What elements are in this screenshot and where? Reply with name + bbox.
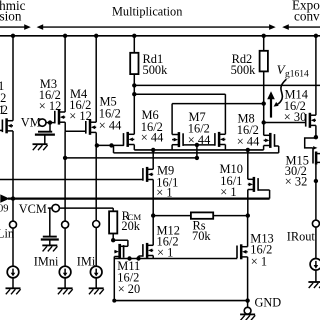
node Vg1614 line from Rd1 xyxy=(134,84,320,86)
ground ILin xyxy=(6,287,21,289)
junction Rd1-M7 line xyxy=(132,92,136,96)
junction VM node xyxy=(48,120,52,124)
junction VDD-M1 xyxy=(11,34,15,38)
resistor Rs xyxy=(191,212,213,218)
node IMi terminal xyxy=(93,221,100,228)
wire Rd1 bottom lead xyxy=(133,74,135,96)
wire M10 gate hook to input line xyxy=(258,189,270,191)
wire Rd1 top lead xyxy=(133,36,135,53)
resistor Rd2 xyxy=(260,51,268,72)
capacitor at VM node xyxy=(49,123,51,132)
svg-text:conversion: conversion xyxy=(0,9,22,24)
wire M9 gate line to left edge xyxy=(0,179,143,181)
transistor M3 xyxy=(58,110,61,125)
wire VDD to M14 drain xyxy=(315,36,317,115)
svg-text:× 32: × 32 xyxy=(285,174,307,188)
node ILin terminal xyxy=(10,221,17,228)
svg-text:500k: 500k xyxy=(143,63,169,77)
wire M3 source to M4 gate xyxy=(64,122,66,131)
current source ILin xyxy=(7,266,19,278)
transistor M8 xyxy=(269,133,272,148)
wire M13 source to ground rail xyxy=(247,257,249,301)
wire Rd2 node down to M8 drain xyxy=(263,104,265,136)
wire M11 source to ground rail xyxy=(113,257,115,301)
ground VCM capacitor xyxy=(42,244,57,246)
wire Rs left lead xyxy=(153,215,191,217)
svg-text:09: 09 xyxy=(0,204,9,215)
current source IMi xyxy=(90,266,102,278)
ground GND symbol xyxy=(240,313,255,315)
junction VDD-M3 xyxy=(63,34,67,38)
current source IMni xyxy=(59,266,71,278)
transistor M5 xyxy=(126,132,129,147)
svg-text:× 1: × 1 xyxy=(156,186,172,200)
wire Rd2 top lead xyxy=(263,36,265,51)
junction M11 gate on line xyxy=(127,256,131,260)
wire M14 source down xyxy=(315,125,317,137)
capacitor at VCM node xyxy=(49,208,51,237)
transistor M7 xyxy=(218,132,221,147)
node VCM terminal xyxy=(48,207,52,209)
resistor Rd1 xyxy=(130,53,138,74)
svg-text:IMni: IMni xyxy=(34,254,59,268)
wire Rs right lead xyxy=(213,215,248,217)
wire M4 source column down to IMi xyxy=(95,132,97,220)
transistor M11 xyxy=(118,244,121,259)
transistor M13 xyxy=(240,244,243,259)
svg-text:× 44: × 44 xyxy=(141,130,163,144)
wire M7 gate to common gate node xyxy=(197,144,215,146)
svg-text:× 12: × 12 xyxy=(69,109,91,123)
transistor M1 (clipped at left edge) xyxy=(5,118,8,133)
wire IMni source to ground xyxy=(64,278,66,289)
svg-text:× 1: × 1 xyxy=(220,185,236,199)
svg-text:× 44: × 44 xyxy=(237,134,259,148)
junction RCM - M11 drain xyxy=(111,238,115,242)
transistor M10 xyxy=(253,177,256,192)
wire M6 source to rail xyxy=(171,145,173,150)
node IMni terminal xyxy=(62,221,69,228)
wire IMi to current source xyxy=(95,228,97,267)
junction Rs left xyxy=(151,213,155,217)
junction Rs right xyxy=(246,213,250,217)
junction M4 source - M5 gate xyxy=(95,143,99,147)
transistor M6 xyxy=(178,132,181,147)
junction VDD-Rd1 xyxy=(132,34,136,38)
input signal arrow at left edge xyxy=(0,194,9,202)
wire VDD to M1 drain xyxy=(12,36,14,121)
wire M15 gate jog xyxy=(305,138,316,148)
junction bias line on M3-source column xyxy=(63,156,67,160)
wire Rd2 bottom lead xyxy=(263,71,265,104)
svg-text:500k: 500k xyxy=(231,63,257,77)
wire M14 gate line xyxy=(264,122,306,124)
svg-text:2: 2 xyxy=(2,103,8,117)
svg-text:IRout: IRout xyxy=(287,229,316,243)
wire VDD rail xyxy=(0,35,320,37)
section arrow exponential conversion xyxy=(282,24,289,30)
junction Rd2-M14 gate line xyxy=(262,120,266,124)
svg-text:GND: GND xyxy=(255,296,282,310)
svg-text:× 1: × 1 xyxy=(251,254,267,268)
wire VDD to M3 drain xyxy=(64,36,66,112)
section arrow multiplication xyxy=(37,24,44,30)
junction GND node xyxy=(245,298,249,302)
wire VCM line down to RCM xyxy=(112,208,114,211)
wire bias line to M6-M7 gates xyxy=(65,157,197,159)
svg-text:g1614: g1614 xyxy=(285,70,309,80)
wire IRout to current source xyxy=(315,227,317,258)
wire VCM line to RCM xyxy=(59,207,113,209)
transistor M14 xyxy=(309,113,312,128)
junction Rd2-M6 line xyxy=(262,101,266,105)
transistor M9 xyxy=(146,167,149,182)
wire IMni to current source xyxy=(64,228,66,266)
wire rail to M9 drain xyxy=(152,150,154,169)
ground VM capacitor xyxy=(33,143,48,145)
svg-text:VM: VM xyxy=(21,116,41,130)
wire M8 gate long line to M5 gate node xyxy=(114,152,279,154)
junction input line on M1 column xyxy=(11,196,15,200)
svg-text:× 30: × 30 xyxy=(284,110,306,124)
junction M5 gate line - M8 gate branch xyxy=(109,143,113,147)
svg-text:Lin: Lin xyxy=(0,227,14,241)
wire M9 source down to Rs xyxy=(152,180,154,216)
wire ILin source to ground xyxy=(12,278,14,289)
wire M3 source bias column down to IMni xyxy=(64,131,66,221)
wire input line xyxy=(8,197,270,199)
wire Rs node down to M12 drain xyxy=(152,216,154,246)
wire VDD to M4 drain xyxy=(95,36,97,122)
junction M12 gate on line xyxy=(136,256,140,260)
wire Rd1 column to M5 drain xyxy=(133,94,135,134)
squiggle leader from Vg1614 label xyxy=(276,79,286,105)
junction M15 source column xyxy=(314,179,318,183)
junction rail - M10 drain xyxy=(246,148,250,152)
wire M12 gate jog xyxy=(139,255,144,257)
wire RCM bottom to M11 drain xyxy=(112,234,114,241)
svg-text:VCM: VCM xyxy=(19,202,47,216)
wire IRout source to ground xyxy=(315,270,317,282)
transistor M12 xyxy=(146,243,149,258)
wire M5 source to rail xyxy=(133,145,135,150)
wire ground rail xyxy=(114,300,247,302)
junction Rd1-Vg line xyxy=(132,83,136,87)
wire rail to M10 drain xyxy=(247,150,249,179)
transistor M15 (clipped at right edge) xyxy=(312,148,314,164)
svg-text:conve: conve xyxy=(294,8,320,23)
svg-text:× 12: × 12 xyxy=(39,99,61,113)
wire M1 source down to ILin xyxy=(12,131,14,221)
wire M6 drain to Rd2 node xyxy=(172,103,264,105)
wire M5 gate line xyxy=(97,144,124,146)
ground IRout xyxy=(308,281,320,283)
junction VDD-M14 xyxy=(314,34,318,38)
wire M6-M7 gate drop to bias line xyxy=(196,145,198,158)
wire common source rail M5-M8 xyxy=(134,149,263,151)
wire M6 gate to common gate node xyxy=(183,144,197,146)
section arrow logarithmic conversion xyxy=(0,26,25,28)
wire Rd1 to M7 drain xyxy=(134,93,225,95)
svg-text:× 20: × 20 xyxy=(118,282,140,296)
transistor M4 xyxy=(89,120,92,135)
svg-text:× 1: × 1 xyxy=(157,245,173,259)
svg-text:20k: 20k xyxy=(121,219,140,233)
node GND terminal xyxy=(247,301,249,308)
junction VDD-M4 xyxy=(94,34,98,38)
wire IMi source to ground xyxy=(95,278,97,289)
wire M8 source to rail xyxy=(263,146,265,150)
resistor RCM xyxy=(109,211,117,233)
junction M11 source on ground rail xyxy=(112,299,116,303)
wire M10 source down to Rs xyxy=(247,190,249,216)
junction rail - M9 drain xyxy=(151,148,155,152)
junction M6-M7 gates xyxy=(195,143,199,147)
ground IMni xyxy=(58,287,73,289)
wire M11-M12-M13 gate line xyxy=(114,258,237,260)
wire M15 to IRout xyxy=(315,165,317,221)
junction gate drop on bias line xyxy=(195,156,199,160)
wire M7 source to rail xyxy=(224,145,226,150)
junction M14 source - M15 xyxy=(314,135,318,139)
wire M8 gate hook xyxy=(274,145,279,147)
svg-text:Multiplication: Multiplication xyxy=(112,5,182,19)
node IRout terminal xyxy=(312,220,319,227)
svg-text:× 44: × 44 xyxy=(99,119,121,133)
ground IMi xyxy=(89,287,104,289)
current source IRout xyxy=(310,259,320,271)
junction VDD-Rd2 xyxy=(262,34,266,38)
wire Rs node down to M13 drain xyxy=(247,216,249,247)
wire ILin to current source xyxy=(12,228,14,266)
wire VM to M3 gate xyxy=(46,122,55,124)
wire M12 source to gate line xyxy=(152,256,154,259)
svg-text:70k: 70k xyxy=(192,229,211,243)
current direction arrow near M14 xyxy=(270,98,272,118)
